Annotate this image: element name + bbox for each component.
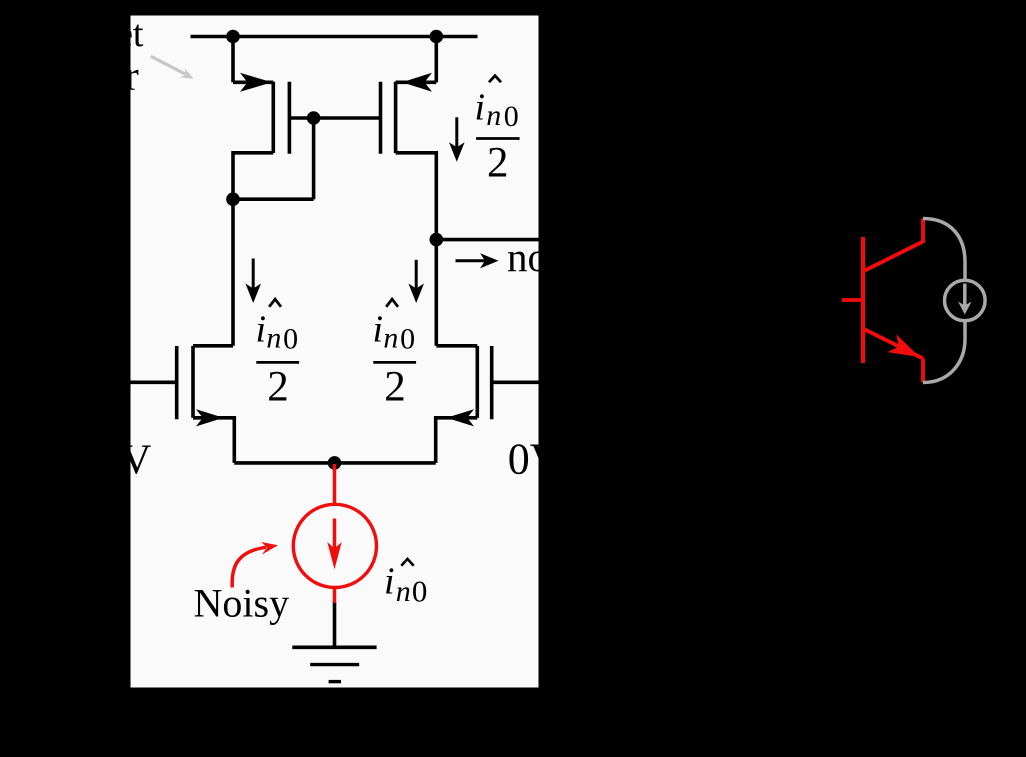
svg-text:0: 0 bbox=[412, 573, 428, 608]
svg-text:2: 2 bbox=[267, 364, 289, 411]
wire output node horizontal bbox=[436, 238, 538, 242]
label i_n0/2 left: hat bbox=[269, 299, 281, 307]
transistor M4 channel bar bbox=[394, 82, 398, 153]
arrowhead M4 source bbox=[402, 73, 432, 92]
wire gray arc top bbox=[923, 219, 965, 280]
junction dot mirror drain bbox=[226, 192, 240, 206]
ground bar 2 bbox=[310, 663, 359, 666]
wire diode tie vertical bbox=[312, 118, 316, 199]
wire M3 drain bend bbox=[233, 153, 273, 199]
wire Q emitter stub bbox=[921, 359, 925, 383]
current source circle bbox=[293, 504, 376, 587]
label i_n0/2 right: hat bbox=[386, 299, 398, 307]
svg-text:0: 0 bbox=[504, 100, 519, 133]
svg-text:i: i bbox=[384, 561, 395, 603]
ground bar 1 bbox=[292, 645, 376, 649]
transistor M3 channel bar bbox=[271, 82, 275, 153]
ground bar 3 bbox=[329, 680, 341, 683]
current source inner arrowhead bbox=[327, 542, 341, 569]
arrowhead M1 source bbox=[196, 409, 224, 426]
svg-text:n: n bbox=[266, 322, 281, 355]
current arrow top right bbox=[449, 117, 465, 162]
schematic panel bbox=[131, 16, 539, 688]
BJT equivalent sketch (red) bbox=[842, 219, 923, 383]
transistor Q base bar bbox=[861, 237, 865, 363]
svg-text:i: i bbox=[256, 309, 267, 351]
transistor M1 gate bar bbox=[175, 346, 179, 419]
wire M1 drain horizontal bbox=[193, 344, 233, 348]
svg-text:n: n bbox=[383, 322, 398, 355]
svg-text:i: i bbox=[475, 87, 486, 129]
label i_n0 source: hat bbox=[401, 559, 413, 566]
gray inner arrowhead bbox=[958, 302, 972, 315]
node arrow bbox=[456, 253, 499, 268]
label i_n0/2 top: fraction bar bbox=[476, 137, 519, 140]
current arrow left branch bbox=[245, 259, 261, 304]
svg-text:0: 0 bbox=[283, 322, 298, 355]
svg-text:n: n bbox=[396, 575, 411, 608]
noisy annotation arrow (red, curved) bbox=[232, 547, 266, 587]
gray annotation arrow bbox=[151, 56, 194, 78]
wire gate bus M3-M4 bbox=[289, 116, 380, 120]
wire M1 gate lead bbox=[131, 380, 177, 384]
transistor M2 gate bar bbox=[490, 346, 494, 419]
wire M4 source vertical bbox=[434, 37, 438, 83]
wire M2 source bend bbox=[436, 418, 478, 463]
junction dot gate bus bbox=[307, 111, 321, 125]
wire M1 source bend bbox=[193, 418, 234, 463]
junction dot output node bbox=[430, 233, 444, 247]
wire diode tie horizontal bbox=[233, 197, 314, 201]
transistor M2 channel bar bbox=[475, 346, 479, 418]
wire gray arc bottom bbox=[923, 321, 965, 382]
arrowhead M3 source bbox=[240, 73, 272, 92]
wire M2 drain horizontal bbox=[436, 344, 477, 348]
svg-text:2: 2 bbox=[384, 364, 406, 411]
arrowhead M2 source bbox=[447, 409, 475, 426]
wire ground stub bbox=[333, 602, 337, 647]
gray inner arrow shaft bbox=[963, 284, 967, 310]
svg-text:n: n bbox=[486, 99, 501, 132]
noisy annotation arrowhead bbox=[261, 542, 278, 555]
transistor M4 gate bar bbox=[379, 82, 383, 154]
wire tail rail bbox=[234, 461, 435, 465]
wire Q collector diagonal bbox=[865, 242, 923, 271]
label i_n0/2 right: fraction bar bbox=[373, 361, 416, 364]
svg-text:Noisy: Noisy bbox=[194, 581, 290, 626]
arrowhead Q emitter bbox=[887, 334, 919, 357]
current source gray circle bbox=[945, 280, 986, 321]
wire Q collector stub bbox=[921, 219, 925, 244]
current arrow right branch bbox=[408, 260, 424, 303]
current source inner arrow shaft bbox=[333, 519, 337, 550]
wire left branch vertical bbox=[231, 199, 235, 346]
svg-text:i: i bbox=[373, 309, 384, 351]
wire right branch vertical bbox=[434, 240, 438, 346]
junction dot VDD left bbox=[226, 30, 240, 44]
svg-text:2: 2 bbox=[487, 139, 509, 186]
wire M3 source horizontal bbox=[233, 81, 273, 85]
svg-text:0: 0 bbox=[400, 322, 415, 355]
wire Q emitter diagonal bbox=[865, 330, 923, 359]
transistor M1 channel bar bbox=[191, 346, 195, 418]
wire tail to source top (red) bbox=[333, 464, 337, 505]
junction dot VDD right bbox=[430, 30, 444, 44]
wire source bottom stub (red) bbox=[333, 588, 337, 604]
wire VDD top rail bbox=[191, 35, 478, 39]
wire M4 drain bend bbox=[396, 153, 437, 240]
wire M2 gate lead bbox=[492, 380, 539, 384]
current source I_n0 red bbox=[293, 464, 376, 603]
junction dot tail bbox=[328, 456, 342, 470]
wire M3 source vertical bbox=[231, 37, 235, 83]
label i_n0/2 left: fraction bar bbox=[256, 361, 299, 364]
wire Q base lead bbox=[842, 298, 863, 302]
label i_n0/2 top: hat bbox=[489, 76, 501, 83]
wire M4 source horizontal bbox=[396, 81, 437, 85]
transistor M3 gate bar bbox=[288, 82, 292, 154]
